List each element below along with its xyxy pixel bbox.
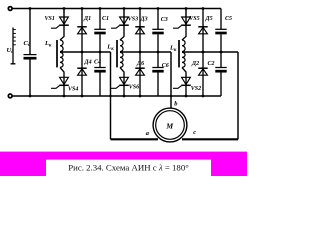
wire Д2 branch [202, 52, 204, 96]
wire VS3 cathode to coil [120, 25, 124, 40]
capacitor С2 [215, 67, 226, 69]
wire С3 top [157, 9, 159, 30]
node Д4 bottom bus [81, 95, 84, 98]
svg-text:VS2: VS2 [191, 86, 201, 92]
wire VS6 cathode [123, 85, 125, 96]
wire coil to VS2 [182, 67, 186, 85]
wire С1 bottom [99, 34, 101, 52]
node С5 tap [220, 51, 223, 54]
wire С4 top [99, 52, 101, 68]
wire phase tap [120, 51, 171, 53]
inductor Lk leg VS5 [178, 40, 180, 67]
wire top bus [12, 8, 221, 10]
svg-text:Рис. 2.34. Схема АИН с λ = 180: Рис. 2.34. Схема АИН с λ = 180° [68, 163, 189, 173]
node VS3 top bus [123, 7, 126, 10]
wire Д4 branch [81, 52, 83, 96]
wire С5 top [220, 9, 222, 30]
svg-text:b: b [174, 101, 177, 108]
wire phase tap [60, 51, 111, 53]
node VS4 bottom bus [63, 95, 66, 98]
wire VS1 anode [63, 9, 65, 26]
caption box [46, 160, 211, 176]
node Д1 tap [81, 51, 84, 54]
wire VS5 cathode to coil [182, 25, 186, 40]
wire VS4 cathode [63, 85, 65, 96]
wire Д6 branch [139, 52, 141, 96]
wire Cd top [29, 9, 31, 55]
svg-text:С2: С2 [208, 61, 215, 67]
node Д6 bottom bus [139, 95, 142, 98]
node VS5 top bus [185, 7, 188, 10]
svg-text:С1: С1 [102, 16, 109, 22]
diode Д2 [198, 67, 207, 69]
node Д3 tap [139, 51, 142, 54]
svg-text:VS4: VS4 [68, 86, 78, 92]
wire Д5 branch [202, 9, 204, 53]
wire С6 top [157, 52, 159, 68]
thyristor VS1 [60, 17, 69, 24]
node phase a bus crossing [109, 95, 111, 97]
svg-text:Lк: Lк [44, 40, 52, 48]
svg-text:M: M [165, 121, 174, 130]
wire phase a vertical [110, 52, 112, 139]
node VS6 bottom bus [123, 95, 126, 98]
svg-text:С6: С6 [162, 63, 169, 69]
capacitor С6 [152, 67, 163, 69]
thyristor VS2 [182, 77, 191, 84]
svg-text:С4: С4 [94, 60, 101, 66]
capacitor С4 [94, 67, 105, 69]
wire С3 bottom [157, 34, 159, 52]
svg-text:a: a [146, 130, 150, 137]
svg-text:Д2: Д2 [191, 61, 199, 67]
node С1 tap [99, 51, 102, 54]
diode Д3 [135, 26, 144, 28]
node Д5 tap [202, 51, 205, 54]
node Д5 top bus [202, 7, 205, 10]
svg-text:С3: С3 [161, 17, 168, 23]
wire С1 top [99, 9, 101, 30]
wire Cd bottom [29, 60, 31, 97]
wire phase a horizontal [111, 138, 159, 140]
svg-text:Д6: Д6 [136, 61, 144, 67]
thyristor VS3 [120, 17, 129, 24]
capacitor С1 [94, 28, 105, 30]
node phase b bus crossing [170, 95, 172, 97]
svg-text:Lк: Lк [106, 44, 114, 52]
diode Д6 [135, 67, 144, 69]
svg-text:С5: С5 [225, 16, 232, 22]
svg-text:Д4: Д4 [84, 60, 92, 66]
svg-text:Д1: Д1 [83, 16, 91, 22]
wire Д1 branch [81, 9, 83, 53]
node С1 top bus [99, 7, 102, 10]
wire С2 bottom [220, 73, 222, 97]
wire С6 bottom [157, 73, 159, 97]
wire С2 top [220, 52, 222, 68]
wire VS3 anode [123, 9, 125, 26]
wire coil to VS6 [120, 67, 124, 85]
capacitor С5 [215, 28, 226, 30]
wire phase c horizontal [182, 138, 238, 140]
wire coil to VS4 [60, 67, 64, 85]
svg-text:Д5: Д5 [205, 16, 213, 22]
inductor Lk leg VS3 [116, 40, 118, 67]
terminal + input [8, 7, 12, 11]
thyristor VS4 [60, 77, 69, 84]
diode Д4 [77, 67, 86, 69]
thyristor VS5 [182, 17, 191, 24]
diode Д5 [198, 26, 207, 28]
wire VS2 cathode [185, 85, 187, 96]
motor M [153, 108, 187, 142]
svg-text:Д3: Д3 [140, 17, 148, 23]
capacitor С3 [152, 28, 163, 30]
wire phase b vertical [170, 52, 172, 109]
capacitor Cd [24, 54, 37, 56]
node VS2 bottom bus [185, 95, 188, 98]
svg-text:VS3: VS3 [128, 17, 138, 23]
node Cd bottom bus [29, 95, 32, 98]
node Cd top bus [29, 7, 32, 10]
diode Д1 [77, 26, 86, 28]
node Д1 top bus [81, 7, 84, 10]
caption magenta band [0, 152, 247, 176]
wire Д3 branch [139, 9, 141, 53]
node VS1 top bus [63, 7, 66, 10]
node С3 top bus [157, 7, 160, 10]
wire С5 bottom [220, 34, 222, 52]
wire bottom bus [12, 95, 221, 97]
terminal - input [8, 94, 12, 98]
node С3 tap [157, 51, 160, 54]
source Ud symbol [12, 28, 14, 64]
wire VS1 cathode to coil [60, 25, 64, 40]
inductor Lk leg VS1 [56, 40, 58, 67]
wire С4 bottom [99, 73, 101, 97]
wire phase tap [182, 51, 238, 53]
svg-text:VS6: VS6 [129, 85, 139, 91]
svg-text:c: c [193, 129, 196, 136]
svg-text:VS1: VS1 [45, 16, 55, 22]
wire phase c vertical [237, 52, 239, 139]
thyristor VS6 [120, 77, 129, 84]
svg-text:VS5: VS5 [189, 16, 199, 22]
node Д3 top bus [139, 7, 142, 10]
node Д2 bottom bus [202, 95, 205, 98]
wire VS5 anode [185, 9, 187, 26]
